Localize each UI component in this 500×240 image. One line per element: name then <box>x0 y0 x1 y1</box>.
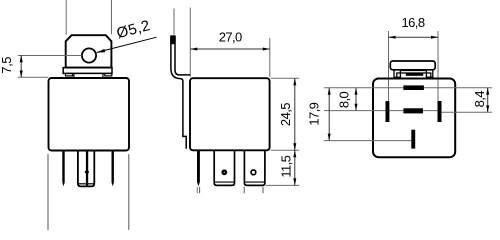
blade pin B inner tip line <box>245 181 265 183</box>
relay body bottom view <box>373 79 455 158</box>
blade pin A outline <box>214 150 234 185</box>
bracket lower dark band <box>406 73 423 75</box>
dim 24,5 top extension <box>271 77 300 79</box>
dim 24,5/11,5 middle extension <box>271 149 300 151</box>
dim 17,9 arrow down <box>328 134 331 141</box>
dim 11,5 arrow down <box>293 178 296 185</box>
ref line pin86 left <box>324 87 403 89</box>
svg-text:24,5: 24,5 <box>278 103 293 126</box>
blade pin A hole <box>221 169 227 175</box>
flange foot right <box>105 73 112 76</box>
leader arrowhead <box>97 49 106 53</box>
dim 8,4 arrow up <box>486 88 489 95</box>
dim 11,5 bottom extension <box>266 184 299 186</box>
bracket foot right <box>426 70 432 77</box>
flange foot center <box>74 73 103 77</box>
dim 11,5 dimension line <box>294 150 296 185</box>
ref line pin85 <box>324 140 411 142</box>
extension line below body left (cropped) <box>47 154 49 230</box>
extension line below body right (cropped) <box>128 154 130 230</box>
pin 85 center blade edge-on <box>86 151 88 186</box>
dim 8,0 arrow down <box>355 104 358 111</box>
relay body side <box>190 78 270 150</box>
dim 27,0 dimension line <box>190 48 269 50</box>
ref line pin86 right <box>424 87 492 89</box>
mounting hole circle <box>82 48 96 62</box>
svg-text:16,8: 16,8 <box>402 15 425 30</box>
svg-text:27,0: 27,0 <box>219 30 242 45</box>
dim 27,0 left extension line <box>189 8 191 78</box>
svg-text:7,5: 7,5 <box>0 57 14 74</box>
relay body front <box>49 78 130 151</box>
pin 87a blade (left, edge-on) <box>62 151 64 187</box>
flange foot left <box>66 73 73 76</box>
dim 16,8 arrow right <box>431 36 438 39</box>
dim 7,5 dimension line <box>20 56 22 78</box>
dim 16,8 right extension <box>437 31 439 120</box>
pin 85 side (thin, edge-on) <box>197 150 200 186</box>
tab flange <box>63 68 112 74</box>
bracket foot left <box>394 70 400 77</box>
pin 87a (left vertical blade) <box>386 101 390 122</box>
pin 85 (bottom vertical blade) <box>411 130 415 149</box>
dim 8,0 dimension line <box>355 88 357 111</box>
svg-text:17,9: 17,9 <box>306 102 321 125</box>
short extension below blade B right <box>262 187 264 194</box>
bracket strip (bottom view) <box>390 61 435 70</box>
blade pin B outline <box>244 150 265 185</box>
dim 27,0 right extension line <box>269 38 271 77</box>
bracket lower piece <box>397 73 431 78</box>
dim 7,5 arrow up <box>20 56 23 63</box>
dim 8,0 arrow up <box>355 88 358 95</box>
pin 87 blade (right, edge-on) <box>112 151 114 187</box>
svg-text:8,4: 8,4 <box>472 91 487 108</box>
dim 7,5 arrow down <box>20 71 23 78</box>
bracket middle bar <box>400 71 426 73</box>
extension line above bracket <box>173 9 175 35</box>
short extension below blade B left <box>243 187 245 194</box>
pin 87 (right vertical blade) <box>438 101 442 122</box>
ref line pin87 right <box>442 111 493 113</box>
dim 24,5 arrow up <box>293 78 296 85</box>
center pin group inner bottom line <box>79 183 94 185</box>
extension line above tab left <box>65 0 67 35</box>
blade pin B hole <box>251 170 256 175</box>
pin 86 (top horizontal blade) <box>403 85 424 90</box>
dim 27,0 arrow left <box>190 48 197 51</box>
dim 24,5 arrow down <box>293 143 296 150</box>
dim 16,8 left extension <box>388 31 390 120</box>
ref line pin30 left <box>324 110 438 112</box>
dim 8,4 dimension line <box>487 88 489 112</box>
extension line above tab right <box>111 0 113 34</box>
dim 7,5 bottom extension line <box>18 76 49 78</box>
pin 30 (center horizontal blade) <box>403 108 423 113</box>
leader line for hole dia <box>97 37 157 52</box>
dim 11,5 arrow up <box>293 150 296 157</box>
bracket cap (top end of metal strip) <box>170 35 175 44</box>
rivet blob on center blade <box>85 169 90 175</box>
dim 8,4 arrow down <box>486 105 489 112</box>
center pin group outline <box>78 151 94 187</box>
dim 27,0 arrow right <box>263 48 270 51</box>
bracket outer contour <box>171 36 186 149</box>
svg-text:11,5: 11,5 <box>279 155 294 177</box>
dim 17,9 dimension line <box>328 88 330 141</box>
bracket inner contour <box>175 36 190 75</box>
extension lines below pin 85 <box>196 187 198 193</box>
dim 7,5 top extension line <box>18 55 82 57</box>
svg-text:8,0: 8,0 <box>337 91 352 108</box>
dim 16,8 dimension line <box>389 36 439 38</box>
mounting tab block <box>66 35 112 67</box>
dim 24,5 dimension line <box>294 78 296 150</box>
dim 16,8 arrow left <box>389 36 396 39</box>
blade pin A inner tip line <box>215 181 234 183</box>
dim 17,9 arrow up <box>328 88 331 95</box>
